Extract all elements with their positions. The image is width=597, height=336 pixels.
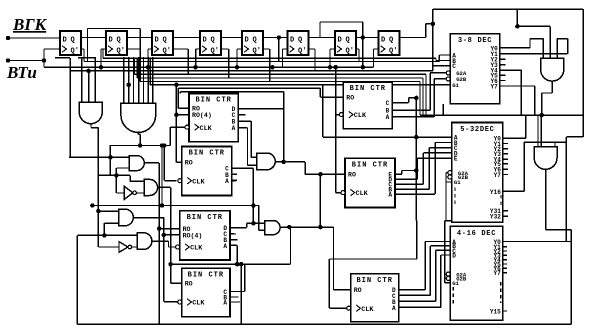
svg-text:A: A — [223, 243, 227, 250]
svg-text:A: A — [225, 178, 229, 185]
svg-text:BIN CTR: BIN CTR — [187, 214, 223, 222]
svg-text:A: A — [223, 299, 227, 306]
svg-text:A: A — [392, 305, 396, 312]
svg-text:C: C — [386, 100, 390, 107]
svg-text:BIN CTR: BIN CTR — [188, 272, 224, 280]
svg-text:Q': Q' — [163, 48, 171, 56]
svg-text:Q': Q' — [211, 48, 219, 56]
svg-text:D: D — [63, 37, 67, 45]
svg-text:3-8 DEC: 3-8 DEC — [458, 37, 492, 45]
svg-text:Y7: Y7 — [494, 172, 502, 179]
svg-text:CLK: CLK — [354, 112, 367, 120]
svg-text:D: D — [381, 37, 385, 45]
svg-text:A: A — [388, 192, 392, 199]
svg-text:Q': Q' — [298, 48, 306, 56]
svg-text:Y16: Y16 — [490, 189, 501, 196]
svg-text:G1: G1 — [452, 280, 459, 287]
svg-text:Q: Q — [211, 37, 215, 45]
svg-text:Q: Q — [298, 37, 302, 45]
svg-text:D: D — [109, 37, 113, 45]
svg-text:D: D — [290, 37, 294, 45]
svg-text:A: A — [386, 114, 390, 121]
svg-text:Q': Q' — [389, 48, 397, 56]
svg-text:Q': Q' — [346, 48, 354, 56]
svg-text:RO: RO — [354, 287, 362, 294]
svg-text:5-32DEC: 5-32DEC — [460, 126, 494, 134]
svg-text:RO: RO — [348, 172, 356, 179]
svg-text:BIN CTR: BIN CTR — [352, 162, 388, 170]
svg-text:BIN CTR: BIN CTR — [189, 150, 225, 158]
svg-text:Q': Q' — [253, 48, 261, 56]
svg-text:RO: RO — [185, 281, 193, 288]
svg-text:4-16 DEC: 4-16 DEC — [457, 230, 496, 238]
svg-text:Y15: Y15 — [490, 308, 501, 315]
svg-text:CLK: CLK — [356, 190, 369, 198]
svg-text:G1: G1 — [454, 179, 461, 186]
svg-text:D: D — [338, 37, 342, 45]
svg-text:D: D — [245, 37, 249, 45]
svg-text:D: D — [155, 37, 159, 45]
svg-text:ВГК: ВГК — [12, 15, 48, 34]
svg-text:G1: G1 — [452, 82, 459, 89]
svg-text:A: A — [232, 125, 236, 132]
svg-text:CLK: CLK — [190, 245, 203, 253]
svg-text:Q': Q' — [117, 48, 125, 56]
svg-text:RO(4): RO(4) — [183, 232, 203, 239]
svg-text:RO: RO — [185, 160, 193, 167]
svg-text:BIN CTR: BIN CTR — [356, 277, 392, 285]
svg-text:BIN CTR: BIN CTR — [350, 85, 386, 93]
svg-text:RO(4): RO(4) — [192, 112, 212, 119]
svg-text:D: D — [452, 252, 456, 259]
svg-text:Q: Q — [389, 37, 393, 45]
svg-text:Y7: Y7 — [490, 83, 498, 90]
svg-text:CLK: CLK — [192, 300, 205, 308]
svg-text:CLK: CLK — [361, 306, 374, 314]
svg-text:RO: RO — [346, 95, 354, 102]
svg-text:Q: Q — [253, 37, 257, 45]
svg-text:E: E — [454, 156, 458, 163]
svg-text:D: D — [203, 37, 207, 45]
svg-text:Y7: Y7 — [493, 270, 501, 277]
svg-text:Y32: Y32 — [490, 214, 501, 221]
svg-text:Q: Q — [117, 37, 121, 45]
svg-text:CLK: CLK — [200, 125, 213, 133]
svg-text:ВТи: ВТи — [6, 63, 37, 82]
svg-text:Q: Q — [163, 37, 167, 45]
svg-text:CLK: CLK — [192, 178, 205, 186]
svg-text:Q: Q — [346, 37, 350, 45]
svg-text:Q': Q' — [71, 48, 79, 56]
svg-text:BIN CTR: BIN CTR — [195, 97, 231, 105]
svg-text:Q: Q — [71, 37, 75, 45]
